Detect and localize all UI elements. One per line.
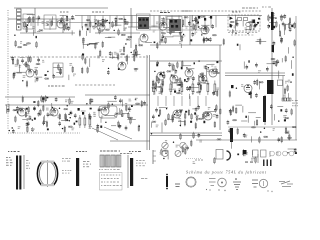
resistor R22 [102,41,104,48]
resistor R114 [130,117,132,124]
resistor R147 [237,128,239,135]
wire [14,109,19,111]
resistor R21 [95,42,97,49]
inductor L12 [128,36,132,37]
speaker transformer T10 [76,158,79,186]
capacitor C91 [227,120,230,125]
wire [81,110,86,112]
switch S5 [279,181,293,187]
wire [43,121,47,123]
capacitor C7 [102,18,105,23]
resistor R79 [158,77,160,84]
value label [251,158,255,161]
wire [256,41,267,43]
transformer T11 [176,25,179,28]
tube V18 [204,112,212,120]
tube V15 [50,108,58,116]
node [26,26,27,27]
wire [180,120,182,126]
power transformer core T12 [271,12,274,30]
wire [281,58,283,62]
wire [27,14,35,16]
IF transformer T1 [138,17,149,29]
node [67,105,68,106]
capacitor C33 [21,58,24,63]
node [256,24,257,25]
node [105,122,106,123]
resistor R83 [173,64,175,71]
ground [233,178,241,189]
node [125,43,126,44]
resistor R133 [216,104,218,111]
capacitor C15 [209,37,212,42]
wire [274,114,276,120]
component N29 [216,61,218,63]
resistor R95 [41,95,43,102]
node [86,103,87,104]
inductor L50 [115,113,119,114]
value label [160,152,163,155]
wire [219,45,221,130]
capacitor C38 [266,67,269,72]
value label [34,18,37,21]
resistor R17 [103,20,105,27]
transformer T5 [140,25,142,27]
value label [76,151,87,152]
value label [169,22,172,25]
node [112,104,113,105]
resistor R300 [153,81,155,96]
inductor L30 [134,68,138,69]
value label [285,81,288,84]
node [247,33,248,34]
tube V13 [244,85,252,93]
value label [209,15,212,18]
node [14,35,15,36]
resistor R117 [138,125,140,132]
node [70,117,71,118]
tube V8 [157,72,165,80]
resistor R94 [42,96,44,103]
capacitor C63 [114,95,117,100]
wire [130,8,132,48]
wire [180,44,182,48]
component N51 [180,110,182,112]
wire [210,16,212,28]
wire [37,19,39,26]
wire [34,76,42,78]
node [66,23,67,24]
wire [63,19,65,27]
resistor R84 [177,61,179,68]
capacitor C26 [280,39,283,44]
socket S4 [259,179,272,192]
wire [132,54,141,56]
wire [44,115,46,122]
inductor L59 [233,120,237,121]
wire [150,132,222,134]
resistor R23 [83,37,85,44]
wire [199,28,205,30]
value label [241,84,244,87]
node [107,20,108,21]
value label [179,41,181,44]
wire [111,125,116,127]
vibrator S1 [166,174,168,190]
value label [116,53,119,56]
capacitor C64 [29,115,32,120]
resistor R118 [128,112,130,119]
resistor R149 [281,136,283,143]
inductor L61 [264,136,268,137]
capacitor C13 [188,21,191,26]
tube V17 [173,110,181,118]
capacitor C75 [74,113,77,118]
inductor L47 [68,126,72,127]
capacitor C92 [229,109,232,114]
transformer T3 [143,19,145,21]
value label [23,75,26,78]
wire [254,121,256,126]
capacitor C94 [285,108,288,113]
resistor R150 [289,134,291,141]
resistor R138 [182,146,184,153]
trimmer C95 [162,151,168,157]
capacitor C93 [270,104,273,109]
component N36 [131,105,133,107]
tube V2 [97,23,105,31]
capacitor C85 [204,18,206,21]
wire [95,32,140,34]
capacitor C11 [161,38,164,43]
wire [111,52,113,59]
wire [71,30,73,35]
node [59,108,60,109]
field coil T15 [263,96,266,122]
inductor L9 [124,22,128,23]
value label [165,140,167,143]
capacitor C80 [231,85,234,88]
capacitor C90 [198,133,201,138]
tube V7 [118,62,126,70]
wire [166,18,174,20]
component N17 [292,73,294,76]
wire [197,96,199,106]
wire [206,64,214,66]
resistor R37 [193,23,195,30]
resistor R2 [64,24,66,31]
wire [89,58,91,67]
tube V3 [140,34,148,42]
node [275,17,276,18]
capacitor C84 [198,16,200,19]
capacitor C37 [277,59,280,64]
wire [180,32,182,40]
resistor R145 [235,107,237,114]
wire [167,150,169,159]
capacitor C51 [197,81,200,86]
value label [245,28,248,31]
node [253,29,254,30]
component N43 [74,123,76,125]
wire [169,88,176,90]
capacitor C83 [82,112,84,115]
wire [20,32,75,34]
wire [109,16,111,29]
wire [178,88,180,94]
node [182,25,183,26]
wire [201,24,209,26]
resistor R140 [191,140,193,147]
tube V6 [26,69,34,77]
capacitor C70 [27,121,30,126]
antenna coil L50 [17,9,22,30]
capacitor C46 [202,77,205,82]
capacitor C2 [71,15,74,20]
wire [151,25,157,27]
resistor R67 [82,53,84,60]
resistor R26 [157,42,159,49]
wire [60,14,67,16]
capacitor C73 [19,107,22,112]
wire [112,24,121,26]
node [162,75,163,76]
tube V1 [57,20,65,28]
resistor R122 [220,108,222,115]
value label [37,31,40,34]
resistor R132 [202,113,204,120]
resistor R44 [268,14,270,21]
wire [62,16,64,34]
value label [213,114,216,117]
wire [197,16,199,29]
resistor R109 [46,121,48,128]
value label [250,24,252,27]
wire [247,116,249,123]
component N38 [17,111,19,113]
resistor R143 [232,105,234,112]
component N25 [160,74,162,76]
node [278,120,279,121]
resistor R200 [282,98,291,101]
wire [149,55,151,150]
terminal strip [263,160,272,167]
resistor R128 [168,113,170,120]
resistor R30 [182,19,184,26]
capacitor C84 [155,108,158,113]
transformer T4 [146,19,148,21]
resistor R29 [181,35,183,42]
resistor R125 [172,114,174,121]
component N21 [179,84,181,86]
resistor R63 [134,49,136,56]
wire [163,36,173,38]
node [69,120,70,121]
capacitor C10 [162,34,165,39]
resistor R152 [255,156,256,163]
wire [152,87,154,92]
diode D2 [230,24,234,27]
wire [138,38,140,46]
value label [46,23,49,26]
capacitor C55 [253,80,256,85]
value label [283,95,286,98]
wire [145,41,152,43]
value label [99,169,120,170]
resistor R301 [161,81,163,96]
resistor R50 [26,80,28,87]
resistor R58 [28,56,30,63]
node [114,30,115,31]
component N4 [87,28,89,30]
capacitor C16 [205,37,208,42]
wire [56,19,58,26]
node [139,125,140,126]
component N6 [197,22,199,24]
wire [159,16,161,46]
resistor R104 [27,126,29,133]
node [186,81,187,82]
value label [196,115,200,118]
value label [27,118,30,121]
wire [206,69,208,77]
wire [251,20,253,27]
wire [43,19,45,26]
capacitor C20 [253,24,256,29]
node [158,79,159,80]
capacitor C4 [67,26,70,31]
wire [205,111,215,113]
wire [235,104,242,106]
capacitor C3 [60,17,63,22]
wire [94,16,96,28]
node [12,127,13,128]
wire [7,10,9,130]
value label [62,158,71,162]
resistor R25 [135,44,137,51]
wire [165,16,167,26]
value label [174,71,177,74]
wire [108,36,115,38]
wire [267,63,275,65]
value label [129,151,141,152]
node [87,44,88,45]
component N30 [250,91,252,94]
wire [201,80,207,82]
capacitor C45 [175,69,178,74]
wire [56,72,62,74]
wire [150,44,222,46]
inductor L46 [13,110,17,111]
value label [214,67,216,70]
resistor R55 [30,56,32,63]
capacitor C57 [55,97,58,102]
inductor L43 [259,82,263,83]
capacitor C12 [179,31,182,36]
node [173,142,174,143]
resistor R72 [87,67,89,74]
wire [75,15,262,17]
component N50 [190,121,192,123]
wire [82,26,84,30]
capacitor C48 [186,86,189,91]
node [195,159,202,160]
wire [243,62,245,69]
node [68,114,69,115]
wire [159,41,166,43]
resistor R322 [89,115,91,128]
value label [97,56,100,59]
component N11 [257,22,259,24]
component N20 [174,90,176,92]
wire [178,120,185,122]
component N13 [291,25,293,27]
component N5 [154,42,156,44]
capacitor C69 [31,127,34,132]
wire [102,16,104,28]
resistor R28 [163,17,165,24]
resistor R45 [279,30,281,37]
capacitor C72 [26,122,29,127]
resistor R320 [79,115,81,128]
resistor R303 [181,81,183,96]
node [292,57,293,58]
value label [35,67,39,70]
value label [242,8,258,9]
capacitor C49 [187,77,190,82]
wire [122,99,124,106]
wire [128,26,162,28]
shield box [228,15,260,31]
component N42 [76,121,78,123]
component N19 [163,72,165,74]
wire [173,96,175,106]
value label [129,99,132,102]
node [154,71,155,72]
value label [26,160,30,169]
capacitor C80 [128,106,131,111]
capacitor C76 [70,110,73,115]
capacitor C29 [36,77,39,82]
wire [156,84,158,91]
value label [101,29,104,32]
capacitor C61 [91,98,94,103]
wire [33,29,35,35]
value label [141,178,147,179]
choke T13 [272,45,275,52]
capacitor C62 [119,98,122,103]
resistor R43 [289,22,291,29]
wire [198,75,200,81]
inductor L37 [199,76,203,77]
node [165,153,166,154]
resistor R124 [195,122,197,129]
value label [232,30,234,33]
resistor R52 [17,58,19,65]
wire [239,44,241,50]
transformer T8 [170,20,173,23]
resistor R80 [161,87,163,94]
inductor L27 [24,64,28,65]
node [47,71,48,72]
component N46 [185,111,187,113]
capacitor C58 [7,108,10,113]
value label [65,20,68,23]
node [135,99,136,100]
wire [192,108,197,110]
component N55 [295,152,297,154]
resistor R18 [79,30,81,37]
